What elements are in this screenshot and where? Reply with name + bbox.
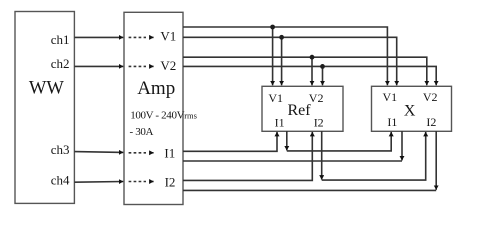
svg-text:WW: WW (29, 79, 64, 99)
svg-text:ch1: ch1 (51, 32, 70, 47)
svg-text:X: X (404, 102, 416, 119)
svg-text:V1: V1 (383, 90, 398, 104)
svg-text:I2: I2 (165, 175, 176, 190)
svg-text:- 30A: - 30A (130, 126, 154, 138)
svg-text:ch2: ch2 (51, 56, 70, 71)
svg-text:V2: V2 (160, 58, 176, 73)
svg-text:V1: V1 (268, 91, 283, 105)
svg-text:I1: I1 (387, 115, 397, 129)
svg-text:V1: V1 (160, 28, 176, 43)
svg-text:100V - 240Vrms: 100V - 240Vrms (130, 109, 197, 121)
svg-text:I2: I2 (426, 115, 436, 129)
svg-text:V2: V2 (309, 91, 324, 105)
svg-text:Ref: Ref (287, 102, 311, 119)
svg-text:ch3: ch3 (51, 142, 70, 157)
svg-text:V2: V2 (423, 90, 438, 104)
svg-text:Amp: Amp (137, 78, 175, 99)
svg-text:I1: I1 (275, 115, 285, 129)
svg-text:ch4: ch4 (51, 173, 70, 188)
svg-text:I1: I1 (164, 145, 175, 160)
svg-text:I2: I2 (314, 115, 324, 129)
